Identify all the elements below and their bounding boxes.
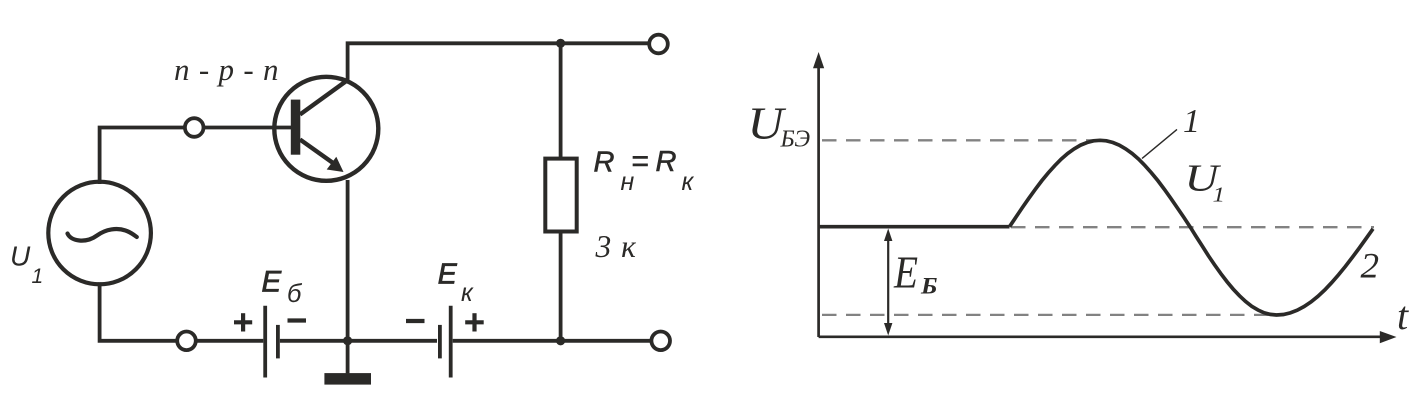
wire: base terminal to transistor base [205,126,291,130]
wire: battery Eб to ground node to battery Eк [280,339,437,343]
junction: resistor leg on bottom rail [556,336,565,345]
transistor VT emitter line with arrow [300,140,344,173]
svg-text:1: 1 [32,265,44,288]
svg-text:E: E [262,265,282,298]
svg-text:1: 1 [1213,183,1226,207]
plus sign at Eк [465,313,484,331]
svg-text:к: к [682,168,695,196]
battery Eб plate short [276,325,280,359]
transistor VT base bar [291,100,301,155]
svg-text:к: к [461,279,474,307]
leader line to label 1 [1142,129,1177,158]
svg-text:БЭ: БЭ [780,127,811,153]
svg-text:n - p - n: n - p - n [174,52,279,87]
minus sign at Eб [288,318,307,322]
wire: battery Eк to bottom junction and output terminal [453,339,651,343]
ground [324,341,371,385]
graph horizontal axis t [819,331,1397,343]
wire: resistor to bottom rail [559,232,563,341]
curve: sine waveform U1 [1010,140,1374,315]
battery Eк plate short [438,325,442,359]
svg-text:3 к: 3 к [595,229,637,264]
svg-text:Б: Б [920,273,938,298]
dashed level line UБЭ (top) [822,139,1100,141]
transistor VT circle [274,77,378,181]
svg-text:E: E [438,258,458,290]
minus sign at Eк [406,319,425,323]
arrow: EБ measurement double arrow [884,229,892,336]
curve: flat bias segment [819,225,1010,229]
svg-text:=: = [632,145,650,178]
svg-text:t: t [1397,293,1409,338]
wire: top rail down to resistor RнRк [559,43,563,158]
dashed level line bias (middle) [1011,226,1374,228]
svg-text:2: 2 [1361,246,1380,286]
svg-text:U: U [10,241,31,272]
transistor VT collector line [300,79,349,114]
wire: lower-left terminal to battery Eб [197,339,263,343]
battery Eб plate long [263,306,267,378]
battery Eк plate long [449,306,453,378]
junction: top rail to resistor [556,39,565,48]
resistor Rн=Rк body [545,159,576,232]
node: output terminal (top right) [649,35,668,54]
svg-text:R: R [656,146,677,178]
node: output terminal (bottom right) [651,332,670,351]
svg-text:E: E [893,248,918,298]
wire: collector up and top rail to output terminal [348,43,649,80]
svg-text:R: R [594,147,615,179]
wire: source top to base terminal [100,128,184,185]
node: input terminal (bottom side) [177,332,196,351]
graph vertical axis U [813,52,824,337]
wire: emitter down to ground rail [346,180,350,341]
svg-text:б: б [287,280,303,308]
junction: emitter/ground on bottom rail [343,336,352,345]
node: input terminal (base side) [185,118,204,137]
source U1 sine symbol [68,229,137,241]
plus sign at Eб [234,313,252,331]
source U1 circle [48,182,151,285]
dashed level line minimum (bottom) [822,314,1270,316]
svg-text:1: 1 [1183,103,1200,140]
wire: source bottom to lower-left terminal [100,282,177,341]
